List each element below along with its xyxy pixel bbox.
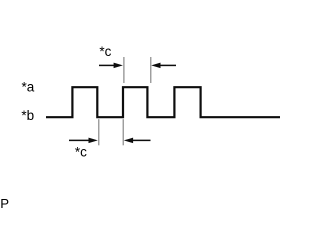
dimension extension line (bottom right, at 2nd rising edge) — [122, 119, 124, 145]
svg-text:*c: *c — [75, 144, 87, 159]
svg-text:P: P — [0, 196, 9, 210]
bottom dimension arrow pointing right — [69, 138, 98, 144]
dimension extension line (top right) — [150, 57, 152, 83]
dimension extension line (bottom left, at 1st falling edge) — [98, 119, 100, 145]
dimension extension line (top left, at 2nd rising edge) — [123, 57, 125, 83]
waveform signal trace (3-pulse square wave) — [46, 87, 280, 117]
top dimension arrow pointing left — [151, 63, 176, 69]
svg-text:*c: *c — [99, 44, 111, 59]
bottom dimension arrow pointing left — [124, 138, 151, 144]
svg-text:*b: *b — [21, 108, 34, 123]
top dimension arrow pointing right — [99, 63, 123, 69]
svg-text:*a: *a — [22, 80, 35, 95]
